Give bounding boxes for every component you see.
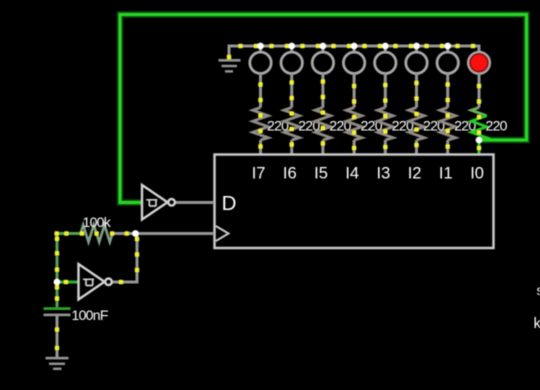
- svg-text:I2: I2: [408, 165, 422, 183]
- svg-text:s: s: [537, 282, 540, 298]
- svg-text:k: k: [534, 315, 540, 332]
- svg-text:I1: I1: [439, 165, 453, 183]
- svg-text:220: 220: [486, 117, 508, 133]
- svg-text:100k: 100k: [83, 214, 112, 230]
- svg-text:I3: I3: [377, 165, 391, 183]
- svg-text:I0: I0: [470, 165, 484, 183]
- svg-text:D: D: [222, 192, 237, 215]
- svg-text:100nF: 100nF: [72, 307, 108, 323]
- svg-text:I5: I5: [314, 165, 328, 183]
- svg-text:I7: I7: [252, 165, 266, 183]
- svg-text:I4: I4: [345, 165, 359, 183]
- svg-text:I6: I6: [283, 165, 297, 183]
